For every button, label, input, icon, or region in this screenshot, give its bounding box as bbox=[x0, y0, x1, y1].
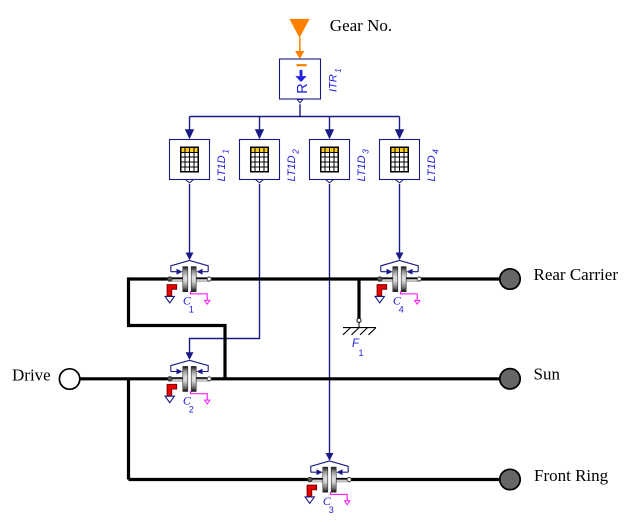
lookup table block LT1D1 bbox=[170, 140, 210, 183]
signal bus from ITR1 to lookup tables bbox=[185, 104, 404, 139]
svg-text:Gear No.: Gear No. bbox=[330, 16, 392, 35]
shaft: sun line bbox=[80, 377, 500, 380]
integer-to-real converter ITR1 bbox=[280, 59, 321, 103]
label LT1D4 bbox=[426, 149, 441, 182]
shaft: sun line down to front ring line bbox=[127, 379, 130, 480]
lookup table block LT1D4 bbox=[380, 140, 420, 183]
label C1 bbox=[183, 294, 194, 315]
clutch C1 bbox=[165, 261, 211, 305]
label LT1D3 bbox=[356, 149, 371, 182]
label C2 bbox=[183, 393, 194, 414]
fixed support F1 bbox=[343, 279, 376, 335]
shaft: rear carrier line bbox=[129, 277, 501, 280]
shaft: front ring line bbox=[129, 478, 501, 481]
svg-text:2: 2 bbox=[189, 404, 194, 414]
ITR1 output port bbox=[297, 100, 303, 103]
flange Sun bbox=[500, 369, 520, 389]
flange Rear Carrier bbox=[500, 269, 520, 289]
svg-text:Sun: Sun bbox=[534, 365, 561, 384]
svg-text:1: 1 bbox=[359, 348, 364, 358]
svg-text:1: 1 bbox=[189, 305, 194, 315]
label LT1D1 bbox=[216, 149, 231, 182]
wire LT1D2 to C2 bbox=[186, 184, 260, 360]
clutch C2 bbox=[165, 360, 211, 404]
clutch C3 bbox=[305, 461, 351, 505]
wire Gear No. to ITR1 bbox=[295, 38, 304, 60]
flange Drive bbox=[59, 369, 79, 389]
shaft: C1 left to sun line (jog) bbox=[129, 277, 226, 378]
svg-text:Rear Carrier: Rear Carrier bbox=[534, 265, 619, 284]
lookup table block LT1D2 bbox=[240, 140, 280, 183]
svg-text:Front Ring: Front Ring bbox=[534, 466, 609, 485]
label ITR1 bbox=[328, 68, 344, 92]
svg-text:3: 3 bbox=[329, 505, 334, 515]
clutch C4 bbox=[375, 261, 421, 305]
wire LT1D3 to C3 bbox=[326, 184, 334, 461]
svg-text:R: R bbox=[295, 83, 311, 93]
input connector Gear No. (orange triangle) bbox=[289, 19, 309, 38]
label F1 bbox=[352, 338, 364, 358]
svg-text:Drive: Drive bbox=[12, 366, 51, 385]
flange Front Ring bbox=[500, 469, 520, 489]
wire LT1D1 to C1 bbox=[186, 184, 194, 260]
svg-text:4: 4 bbox=[399, 305, 404, 315]
lookup table block LT1D3 bbox=[310, 140, 350, 183]
wire LT1D4 to C4 bbox=[396, 184, 404, 260]
label LT1D2 bbox=[286, 149, 301, 182]
label C4 bbox=[393, 294, 404, 315]
label C3 bbox=[323, 494, 334, 515]
